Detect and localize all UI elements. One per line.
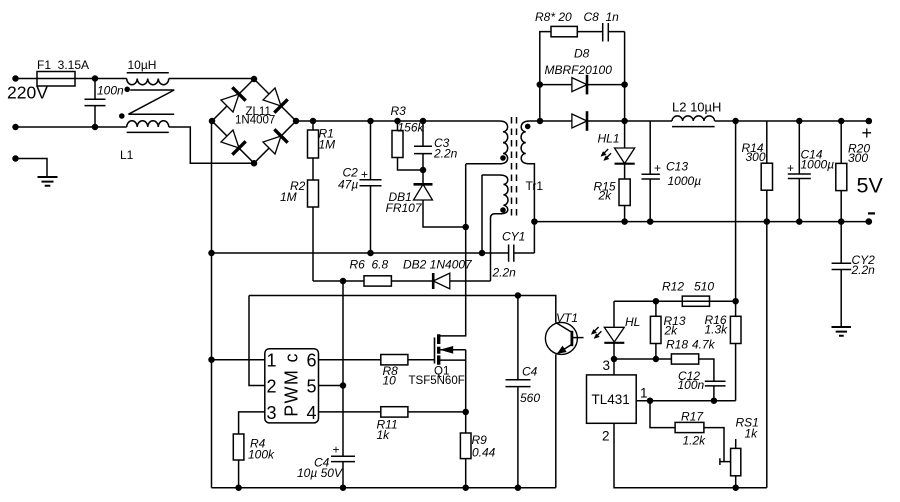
svg-text:+: + [654, 161, 661, 175]
node pin1 on bus [208, 356, 215, 363]
resistor R8* 20 [535, 10, 577, 37]
node PE input terminal [12, 155, 19, 162]
node bridge bottom vertex [251, 160, 258, 167]
svg-text:300: 300 [848, 151, 868, 165]
node secondary return junction [531, 218, 538, 225]
transformer primary winding [466, 121, 508, 164]
wire primary negative bus [211, 121, 213, 488]
svg-text:100n: 100n [97, 84, 124, 98]
svg-text:2: 2 [602, 429, 610, 444]
svg-text:D8: D8 [574, 47, 590, 61]
wire ref row to R18 [614, 358, 671, 360]
svg-text:1: 1 [267, 351, 277, 371]
svg-text:CY1: CY1 [502, 230, 525, 244]
svg-text:+: + [862, 123, 873, 143]
wire bridge diamond edges [212, 79, 296, 163]
node C13 bottom [647, 218, 654, 225]
node R3 top [394, 118, 401, 125]
svg-text:2k: 2k [598, 189, 613, 203]
svg-text:2k: 2k [664, 324, 679, 338]
svg-text:2.2n: 2.2n [851, 263, 876, 277]
wire fuse to choke junction [75, 78, 127, 80]
node R13 bottom on ref row [653, 356, 660, 363]
wire aux top lead riser to CY1 row [481, 175, 483, 253]
node C4 bottom rail [340, 484, 347, 491]
svg-text:MBRF20100: MBRF20100 [545, 63, 613, 77]
resistor R8 10 [381, 355, 435, 388]
ground mains earth [16, 159, 58, 186]
svg-text:300: 300 [746, 150, 766, 164]
node R13 top [653, 298, 660, 305]
svg-text:1: 1 [640, 386, 648, 401]
svg-text:1000µ: 1000µ [668, 174, 702, 188]
led HL arrows [591, 327, 601, 339]
diode DB2 1N4007 [403, 258, 491, 290]
node RS1 bottom [732, 484, 739, 491]
transistor Q1 source-body leads [440, 347, 466, 412]
svg-text:2.2n: 2.2n [492, 266, 517, 280]
node bridge right vertex [293, 118, 300, 125]
ground secondary earth [832, 327, 852, 336]
wire choke top to bridge [169, 78, 254, 80]
node bridge left vertex [209, 118, 216, 125]
svg-text:VT1: VT1 [556, 311, 578, 325]
node R16 top feedback tap [732, 298, 739, 305]
svg-text:PWM c: PWM c [282, 352, 302, 417]
node C4 560 bottom [515, 484, 522, 491]
node C14 bottom [796, 218, 803, 225]
capacitor C4 560 [506, 296, 541, 488]
svg-text:5V: 5V [857, 174, 884, 198]
node R20 top [838, 118, 845, 125]
node C12 bottom [711, 397, 718, 404]
svg-text:10µH: 10µH [128, 58, 157, 72]
wire pin1 riser to R17 [650, 401, 675, 428]
svg-text:2.2n: 2.2n [433, 147, 458, 161]
capacitor C2 47u [338, 121, 382, 253]
svg-text:2: 2 [267, 377, 277, 397]
svg-text:R12: R12 [662, 280, 684, 294]
diode bridge bottom-right [263, 129, 288, 154]
transformer secondary winding [521, 121, 540, 222]
resistor R15 2k [594, 164, 631, 222]
svg-text:R8* 20: R8* 20 [535, 10, 572, 24]
wire pin3 into TL431 [613, 359, 615, 375]
svg-text:L1: L1 [120, 148, 134, 162]
diode bridge top-left [221, 87, 246, 112]
L1 coupling Z symbol [129, 90, 175, 114]
node output plus terminal [866, 118, 873, 125]
svg-text:4.7k: 4.7k [692, 338, 716, 352]
svg-text:1N4007: 1N4007 [235, 115, 275, 127]
wire secondary positive rail [540, 120, 869, 122]
resistor R6 6.8 [350, 258, 434, 287]
svg-text:100n: 100n [678, 378, 705, 392]
wire pin3 to R4 [239, 412, 265, 434]
node output minus terminal [866, 218, 873, 225]
wire pin6 to R8 [319, 359, 381, 361]
svg-text:DB2 1N4007: DB2 1N4007 [403, 258, 473, 272]
wire pin2 riser to feedback row [249, 296, 265, 386]
transistor Q1 drain lead [440, 164, 466, 336]
transformer core dashed lines [512, 117, 517, 218]
node VCC riser top [340, 278, 347, 285]
svg-text:3: 3 [603, 358, 611, 373]
wire pin4 to R11 [319, 411, 381, 413]
wire TL431 pin2 to secondary ground rail [614, 423, 767, 487]
svg-text:3: 3 [267, 403, 277, 423]
wire N terminal to choke [16, 126, 127, 128]
wire R12 feedback row [614, 300, 736, 302]
resistor R14 300 [742, 121, 773, 222]
wire DC+ rail to transformer primary [296, 120, 492, 122]
svg-text:1M: 1M [280, 190, 297, 204]
node L1 phase dot bottom [119, 113, 125, 119]
transformer aux winding [482, 175, 508, 281]
svg-text:TL431: TL431 [592, 392, 630, 407]
resistor R1 1M [308, 121, 336, 158]
node R11-R9-source junction [462, 409, 469, 416]
node CY1 row left on bus [208, 250, 215, 257]
diode D8 lower [572, 111, 587, 131]
node D8 output junction [621, 118, 628, 125]
wire choke bottom to bridge bottom vertex [169, 127, 254, 163]
svg-text:C4: C4 [522, 365, 538, 379]
svg-text:TSF5N60F: TSF5N60F [409, 375, 465, 387]
node C3-R3-DB1 junction [420, 167, 427, 174]
wire snubber right riser [624, 32, 626, 121]
capacitor CY1 2.2n [212, 222, 535, 280]
svg-text:100k: 100k [248, 448, 275, 462]
wire R2 down to VCC row [312, 207, 314, 281]
svg-text:1M: 1M [319, 138, 336, 152]
capacitor 100n [85, 79, 125, 128]
node bridge top vertex [251, 76, 258, 83]
svg-text:10µ 50V: 10µ 50V [297, 466, 343, 480]
svg-text:FR107: FR107 [386, 201, 423, 215]
inductor L1 bottom winding [120, 121, 169, 162]
node snubber left mid [537, 81, 544, 88]
capacitor C13 1000u [642, 121, 702, 222]
node snubber right mid [621, 81, 628, 88]
svg-text:10: 10 [383, 374, 397, 388]
resistor R3 156k [391, 104, 425, 170]
transistor VT1 optocoupler phototransistor [545, 311, 583, 488]
capacitor CY2 2.2n [832, 222, 876, 327]
led HL optocoupler [604, 301, 640, 359]
diode D8 upper [545, 47, 613, 95]
node R9 bottom [462, 484, 469, 491]
wire pin5 to VCC riser [319, 385, 344, 387]
wire L terminal to fuse [16, 78, 38, 80]
wire output 0V rail [534, 221, 868, 223]
transistor Q1 gate bar [434, 338, 436, 364]
resistor R16 1.3k [705, 301, 742, 401]
wire primary bottom rail [212, 487, 556, 489]
node secondary top junction [537, 118, 544, 125]
node R20 bottom CY2 junction [838, 218, 845, 225]
svg-text:R18: R18 [666, 338, 688, 352]
svg-text:F1 3.15A: F1 3.15A [37, 58, 89, 72]
svg-text:0.44: 0.44 [472, 446, 496, 460]
node aux top on CY1 row [479, 250, 486, 257]
resistor R18 4.7k [666, 338, 716, 382]
wire R2 bottom to VCC row [313, 280, 364, 282]
svg-text:47µ: 47µ [338, 178, 358, 192]
wire snubber left riser [540, 32, 551, 121]
capacitor C4 10u 50V [297, 443, 355, 488]
svg-text:R6 6.8: R6 6.8 [350, 258, 389, 272]
svg-text:1.2k: 1.2k [683, 434, 707, 448]
wire D8 upper branch [540, 84, 625, 86]
node N input terminal [12, 124, 19, 131]
svg-text:R17: R17 [681, 410, 704, 424]
label minus [868, 212, 875, 214]
svg-text:C8 1n: C8 1n [584, 10, 620, 24]
node L2 output junction [732, 118, 739, 125]
potentiometer RS1 1k wiper [720, 458, 731, 465]
resistor R11 1k [377, 407, 466, 442]
resistor R4 100k [233, 434, 275, 488]
wire secondary ground link [766, 222, 768, 488]
resistor R2 1M [280, 179, 319, 207]
diode DB1 FR107 [386, 170, 466, 227]
svg-text:+: + [361, 168, 368, 182]
node C3 top [420, 118, 427, 125]
capacitor C3 2.2n [414, 121, 458, 170]
node pin5 VCC junction [340, 382, 347, 389]
resistor R20 300 [836, 121, 871, 222]
node junction bottom of C 100n [92, 124, 99, 131]
led HL1 [598, 121, 635, 164]
svg-text:5: 5 [307, 377, 317, 397]
svg-text:+: + [333, 443, 340, 457]
capacitor C12 100n [678, 369, 726, 401]
inductor L1 top winding 10uH [127, 58, 169, 85]
node R15 bottom [621, 218, 628, 225]
node C4 560 top [515, 292, 522, 299]
wire pin1 to negative bus [212, 359, 265, 361]
diode bridge top-right [263, 88, 288, 113]
node R14 bottom [764, 218, 771, 225]
resistor R13 2k [650, 301, 685, 359]
node L input terminal [12, 75, 19, 82]
node R4 bottom [235, 484, 242, 491]
svg-text:R3: R3 [391, 104, 407, 118]
fuse F1 [37, 58, 89, 86]
svg-text:HL1: HL1 [598, 132, 620, 146]
transistor Q1 channel bars [437, 334, 440, 365]
svg-text:6: 6 [307, 351, 317, 371]
op-amp U2 TL431 box [587, 375, 637, 423]
op-amp U1 PWM controller box [265, 349, 319, 423]
svg-text:C13: C13 [666, 160, 688, 174]
svg-text:4: 4 [307, 403, 317, 423]
svg-text:510: 510 [694, 280, 714, 294]
svg-text:1000µ: 1000µ [801, 158, 835, 172]
resistor R9 0.44 [460, 412, 495, 488]
node C14 top [796, 118, 803, 125]
svg-text:1k: 1k [377, 428, 391, 442]
node R1 top [310, 118, 317, 125]
node pin1 junction [647, 397, 654, 404]
wire VCC riser [342, 281, 344, 456]
potentiometer RS1 1k body [731, 416, 759, 488]
svg-text:1k: 1k [745, 427, 759, 441]
svg-text:L2 10µH: L2 10µH [672, 100, 721, 115]
node C2 top [367, 118, 374, 125]
resistor R12 510 [662, 280, 714, 307]
node aux phase dot [500, 207, 506, 213]
wire TL431 pin1 row [636, 400, 735, 402]
node DB1 to drain riser [462, 224, 469, 231]
inductor L2 10uH [672, 100, 721, 127]
svg-text:560: 560 [520, 391, 540, 405]
capacitor C14 1000u [787, 121, 834, 222]
wire R1 to R2 [312, 158, 314, 180]
node C2 bottom [367, 250, 374, 257]
svg-text:1.3k: 1.3k [705, 323, 729, 337]
node L1 phase dot top [124, 87, 130, 93]
svg-text:+: + [787, 161, 794, 175]
node junction top of C 100n [92, 75, 99, 82]
resistor R17 1.2k [675, 410, 724, 462]
led HL1 arrows [601, 149, 611, 161]
svg-text:HL: HL [625, 315, 640, 329]
diode bridge bottom-left [221, 130, 246, 155]
node TL431 ref pin3 junction [611, 356, 618, 363]
wire feedback row2 [249, 296, 556, 323]
node primary phase dot [500, 155, 506, 161]
wire feedback tap riser [735, 121, 737, 301]
capacitor C8 1n [577, 10, 624, 42]
node secondary phase dot [525, 124, 531, 130]
